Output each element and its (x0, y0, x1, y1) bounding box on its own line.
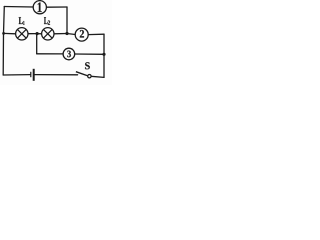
wire vertical drop from node A (36, 34, 38, 54)
wire vertical from top wire to node B (66, 7, 68, 34)
wire right vertical (103, 34, 105, 77)
meter 3 (circled 3) (63, 48, 75, 60)
wire between L2 and node B (54, 33, 67, 35)
lamp L2 (42, 28, 54, 40)
lamp L1 (16, 28, 28, 40)
meter 1 (circled 1) (33, 1, 46, 14)
wire meter 3 to right vertical (75, 53, 104, 55)
label L1 (19, 17, 25, 25)
label L2 (44, 17, 50, 25)
meter 2 (circled 2) (75, 28, 88, 41)
wire top-right horizontal (46, 6, 67, 8)
wire between L1 and node A (28, 33, 37, 35)
node A junction dot between L1 and L2 (36, 32, 39, 35)
label S (85, 62, 90, 69)
wire bottom left (3, 74, 30, 76)
node junction dot right vertical at meter 3 row (102, 53, 105, 56)
wire battery to switch (35, 74, 78, 76)
wire lamp row left segment (4, 32, 16, 34)
wire meter 2 to right edge (88, 33, 104, 35)
wire between node A and L2 (37, 33, 42, 35)
wire top-left horizontal (4, 6, 33, 9)
wire between node B and meter 2 (67, 34, 75, 35)
switch S (76, 72, 91, 78)
wire switch to bottom-right corner (91, 76, 104, 77)
node B junction dot between L2 and meter 2 (65, 32, 68, 35)
wire from drop corner to meter 3 (37, 53, 63, 55)
node junction dot left vertical at lamp row (2, 32, 5, 35)
wire left vertical (3, 7, 4, 76)
battery cell (31, 69, 34, 81)
